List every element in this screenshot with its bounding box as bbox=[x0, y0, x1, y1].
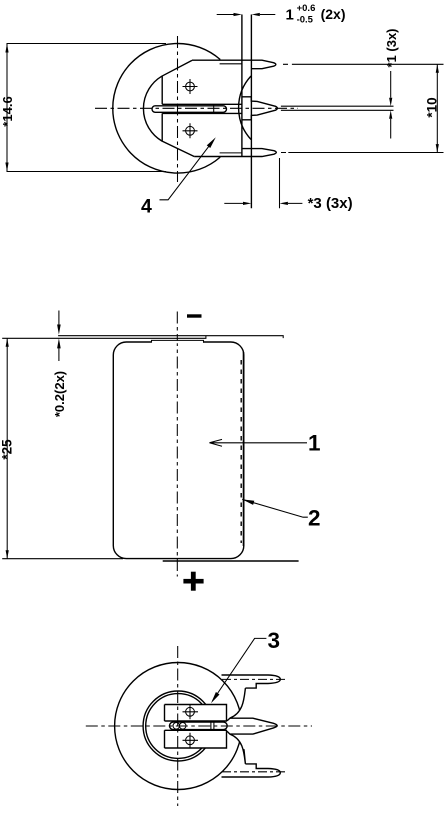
svg-text:*25: *25 bbox=[0, 439, 15, 460]
svg-text:3: 3 bbox=[268, 628, 281, 653]
svg-text:+0.6: +0.6 bbox=[297, 3, 316, 14]
svg-text:*14.6: *14.6 bbox=[0, 96, 15, 126]
svg-text:4: 4 bbox=[141, 196, 152, 218]
svg-text:*10: *10 bbox=[425, 97, 440, 117]
svg-text:-0.5: -0.5 bbox=[297, 15, 314, 26]
svg-text:*0.2(2x): *0.2(2x) bbox=[52, 371, 67, 417]
svg-text:*1 (3x): *1 (3x) bbox=[384, 28, 399, 67]
svg-text:(2x): (2x) bbox=[321, 6, 346, 22]
svg-text:1: 1 bbox=[286, 6, 294, 23]
svg-text:1: 1 bbox=[308, 430, 321, 455]
svg-text:*3 (3x): *3 (3x) bbox=[308, 195, 353, 212]
svg-text:2: 2 bbox=[308, 506, 321, 531]
